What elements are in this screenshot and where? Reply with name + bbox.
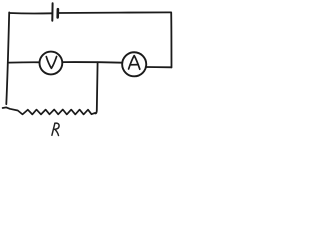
wire top-left horizontal [9,12,51,15]
battery B1 long plate [51,3,53,20]
wire middle (voltmeter to ammeter) [62,61,122,64]
ammeter A1 letter A [129,56,140,70]
resistor value label R [52,123,59,135]
battery B1 short plate [56,9,59,17]
ammeter A1 circle [122,52,146,76]
wire middle-left (left rail to voltmeter) [9,61,40,63]
ammeter A1 letter A crossbar [131,64,139,66]
wire middle-right (ammeter to right rail) [146,66,172,68]
wire junction dropper (node to resistor) [95,62,98,113]
voltmeter V1 circle [40,52,63,75]
resistor R zigzag [3,107,95,114]
voltmeter V1 letter V [46,57,56,69]
wire top-right horizontal [59,11,171,14]
wire left vertical [6,12,9,104]
wire right vertical [170,12,172,67]
